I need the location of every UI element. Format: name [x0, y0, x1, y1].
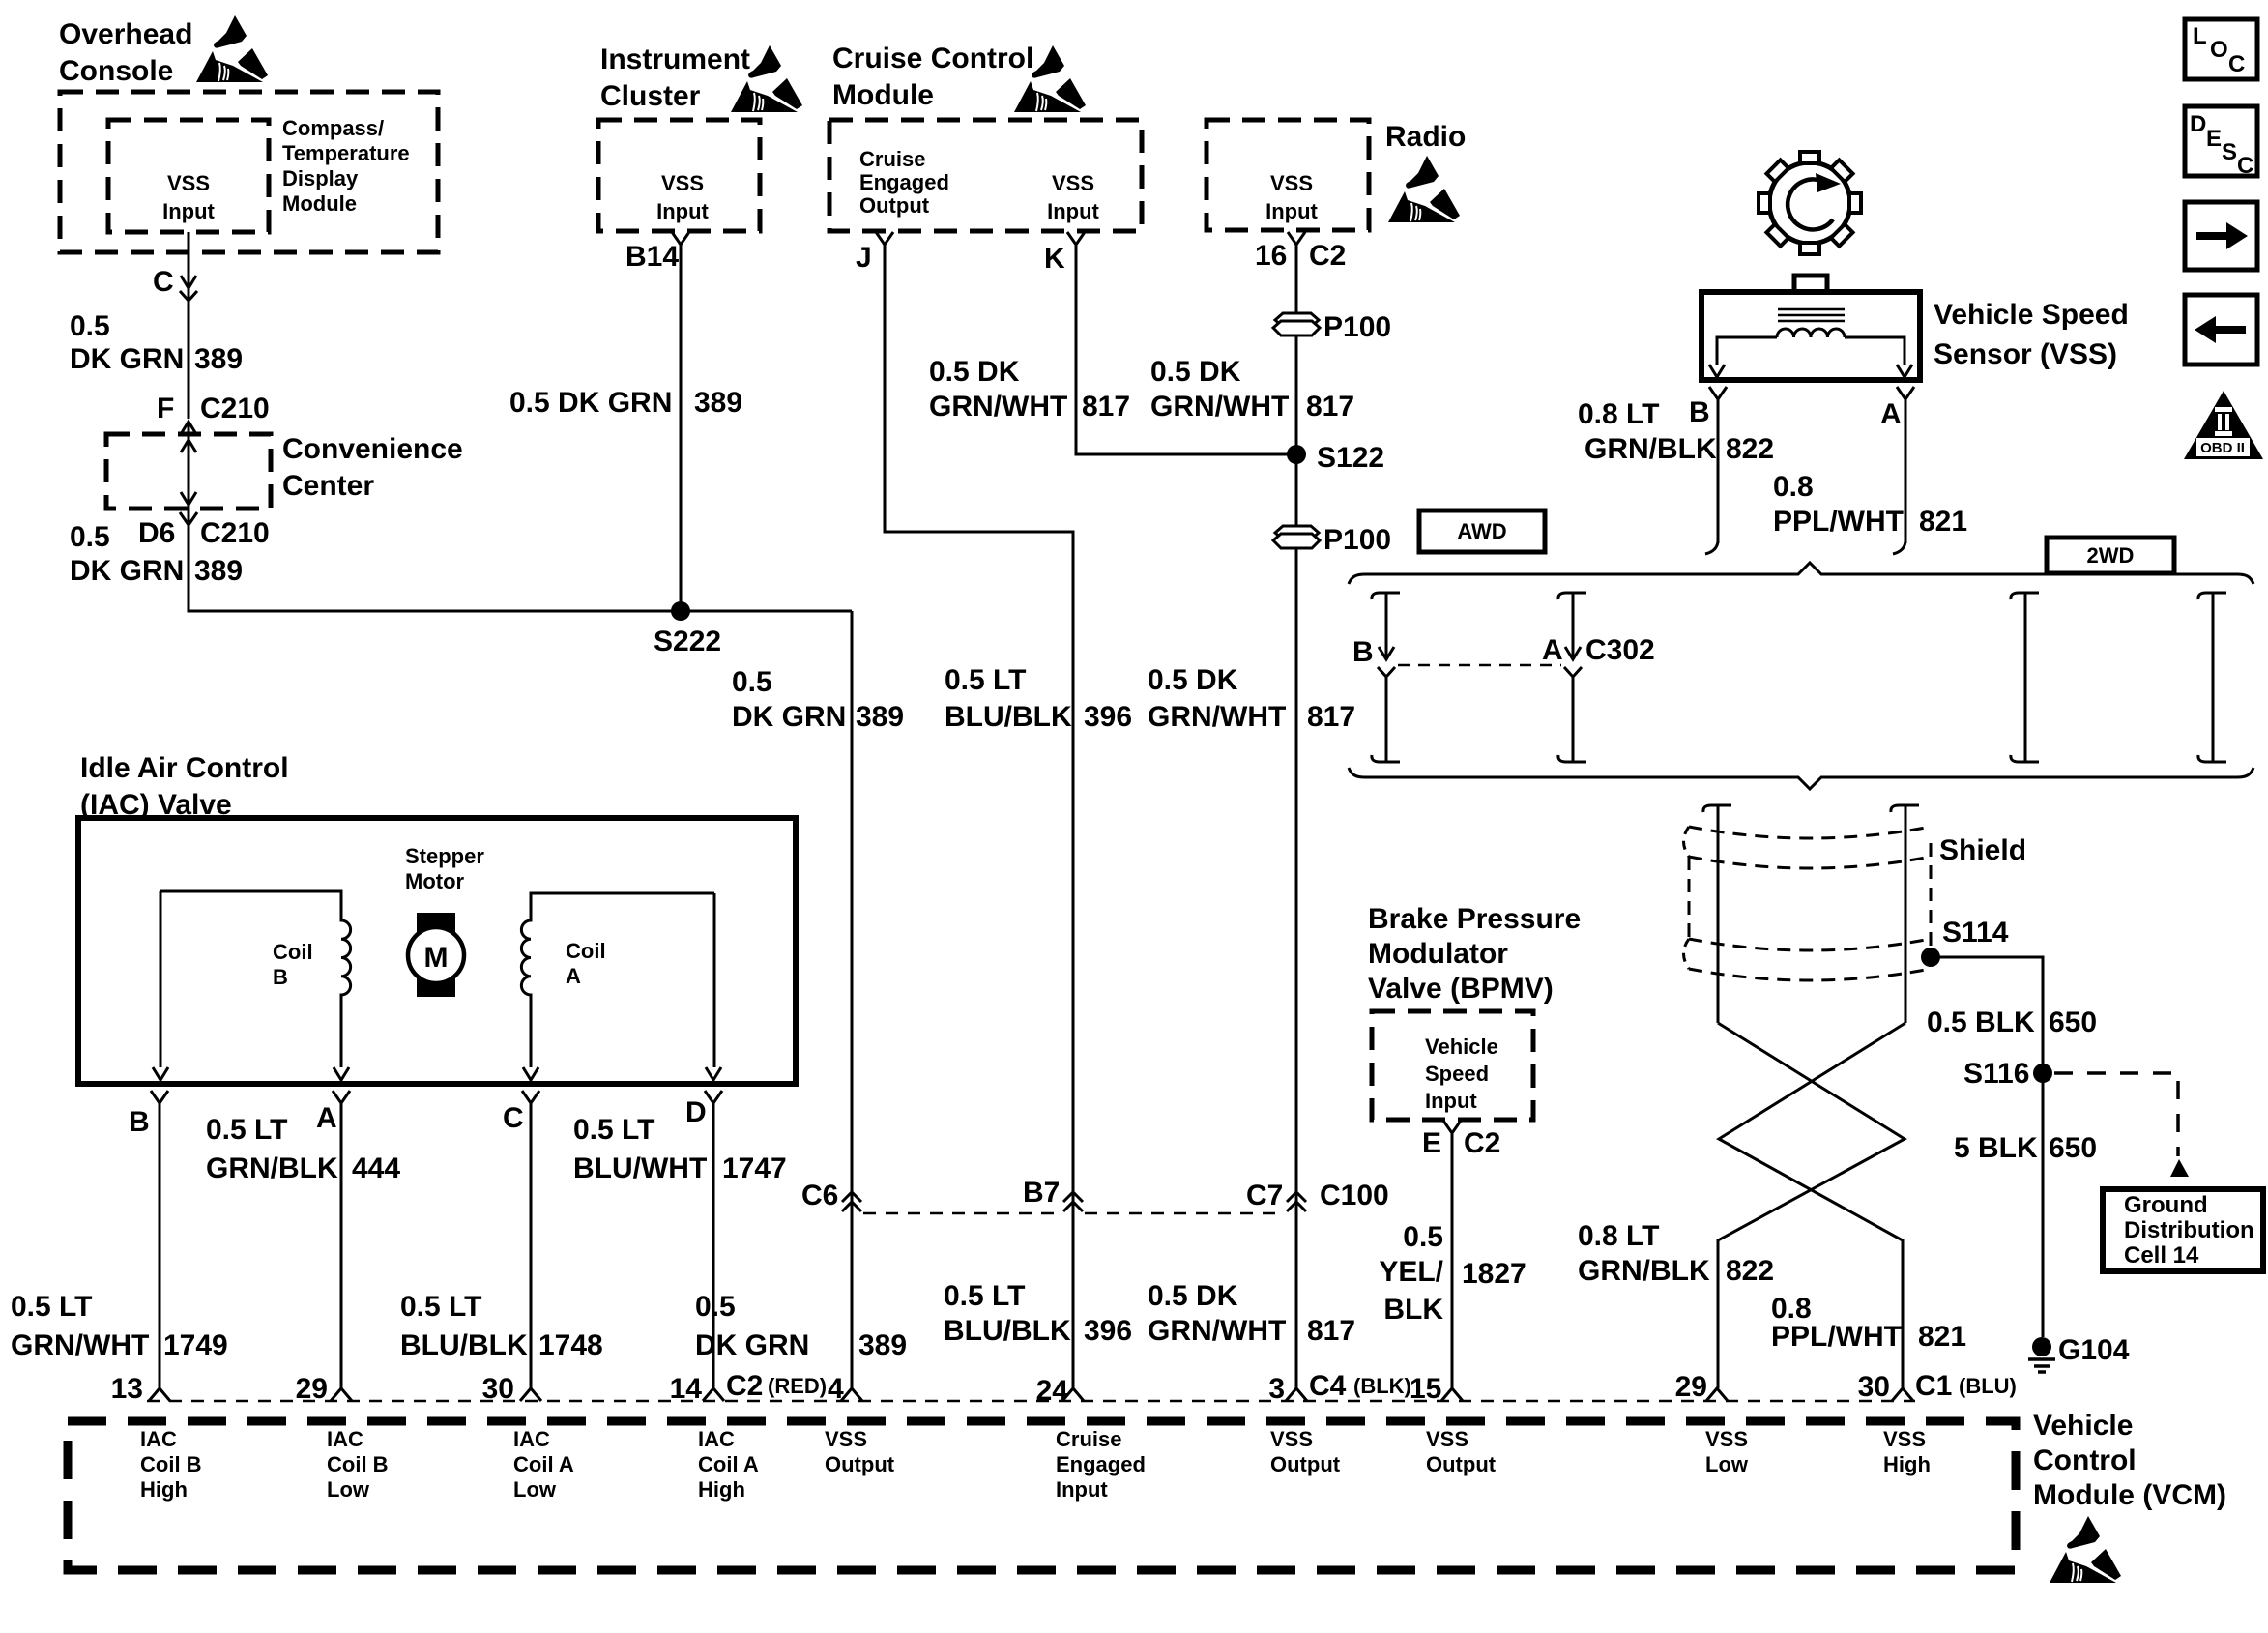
svg-text:0.5: 0.5 [732, 666, 772, 698]
svg-text:Valve (BPMV): Valve (BPMV) [1368, 973, 1554, 1005]
svg-text:B7: B7 [1023, 1177, 1060, 1209]
svg-text:0.5 DK GRN: 0.5 DK GRN [509, 387, 672, 419]
svg-text:0.5 LT: 0.5 LT [206, 1114, 287, 1146]
svg-text:Coil A: Coil A [513, 1452, 574, 1476]
dashed link B-A at C302 [1398, 664, 1561, 667]
svg-text:822: 822 [1726, 433, 1774, 465]
svg-text:0.5: 0.5 [70, 521, 110, 553]
reference box arrow left [2185, 295, 2257, 365]
svg-text:0.8 LT: 0.8 LT [1578, 398, 1659, 430]
module box: Radio VSS Input (dashed) [1207, 120, 1369, 230]
svg-text:High: High [1883, 1452, 1931, 1476]
IAC coil A arrows [523, 1067, 538, 1080]
svg-text:817: 817 [1306, 391, 1354, 423]
svg-text:396: 396 [1084, 1315, 1132, 1347]
svg-text:C4: C4 [1309, 1370, 1347, 1402]
ESD symbol (Instrument Cluster) [731, 45, 802, 112]
svg-text:GRN/WHT: GRN/WHT [1148, 1315, 1286, 1347]
wire through Convenience Center [188, 423, 190, 522]
module box: BPMV Vehicle Speed Input (dashed) [1372, 1011, 1533, 1120]
wire: BPMV E to VCM 15 (YEL/BLK 1827) [1451, 1133, 1454, 1388]
wire: K VSS input to S122 [1076, 245, 1296, 454]
ESD symbol (Overhead Console) [196, 15, 268, 82]
svg-text:Temperature: Temperature [282, 141, 410, 165]
svg-text:1748: 1748 [538, 1329, 603, 1361]
connector fork at VCM pin x=881 [841, 1388, 862, 1401]
option box AWD [1419, 510, 1545, 552]
svg-text:Cell 14: Cell 14 [2124, 1242, 2199, 1268]
svg-text:BLU/BLK: BLU/BLK [944, 1315, 1071, 1347]
wire: VSS high lead (below brace) [1891, 805, 1919, 812]
svg-text:Input: Input [1265, 199, 1318, 223]
svg-text:650: 650 [2049, 1006, 2097, 1038]
svg-text:0.5 DK: 0.5 DK [1148, 1280, 1238, 1312]
wire: 2WD pass-through left [2011, 593, 2039, 599]
wire: VSS B 0.8 LT GRN/BLK 822 [1717, 399, 1720, 543]
wire: 2WD pass-through right [2198, 593, 2226, 599]
svg-text:Output: Output [825, 1452, 895, 1476]
svg-text:Radio: Radio [1385, 121, 1466, 153]
wire: VSS A 0.8 PPL/WHT 821 [1905, 399, 1907, 543]
reference box: Ground Distribution Cell 14 [2103, 1189, 2263, 1271]
svg-text:Compass/: Compass/ [282, 116, 384, 140]
connector fork at VCM pin x=1341 [1286, 1388, 1307, 1401]
svg-text:VSS: VSS [1705, 1427, 1748, 1451]
connector fork at VCM pin x=1968 [1892, 1388, 1913, 1401]
connector fork at VCM pin x=1110 [1062, 1388, 1084, 1401]
svg-text:15: 15 [1410, 1373, 1441, 1405]
reference arrow into Ground Distribution [2170, 1159, 2189, 1177]
svg-text:4: 4 [828, 1373, 844, 1405]
svg-text:0.5 LT: 0.5 LT [11, 1291, 92, 1323]
svg-text:PPL/WHT: PPL/WHT [1773, 506, 1904, 538]
brace (bottom) of drivetrain options [1349, 768, 2253, 789]
svg-text:0.5: 0.5 [1403, 1221, 1443, 1253]
connector fork at J [876, 232, 893, 245]
svg-text:Input: Input [1056, 1477, 1108, 1502]
svg-text:Modulator: Modulator [1368, 938, 1508, 970]
svg-text:Input: Input [656, 199, 709, 223]
svg-text:VSS: VSS [1426, 1427, 1468, 1451]
svg-text:1749: 1749 [163, 1329, 228, 1361]
svg-text:E: E [2206, 126, 2222, 152]
wire: IAC A to VCM 29 [340, 1103, 343, 1388]
svg-text:Instrument: Instrument [600, 44, 750, 75]
wire: IAC D to VCM 14 [712, 1103, 715, 1388]
svg-text:Low: Low [327, 1477, 370, 1502]
svg-text:GRN/WHT: GRN/WHT [1150, 391, 1289, 423]
svg-text:C6: C6 [801, 1180, 838, 1211]
svg-text:0.5 DK: 0.5 DK [929, 356, 1020, 388]
wire: IAC B to VCM 13 [159, 1103, 161, 1388]
svg-text:D: D [2190, 111, 2206, 137]
svg-text:Console: Console [59, 55, 173, 87]
svg-text:Output: Output [1426, 1452, 1497, 1476]
svg-text:C1: C1 [1915, 1370, 1952, 1402]
svg-text:VSS: VSS [1270, 1427, 1313, 1451]
svg-text:389: 389 [858, 1329, 907, 1361]
dashed connector line at VCM [147, 1400, 1915, 1403]
module box: Cruise Control Module (dashed) [829, 120, 1142, 231]
svg-text:C302: C302 [1585, 634, 1655, 666]
svg-text:(BLK): (BLK) [1353, 1374, 1411, 1398]
svg-text:Coil: Coil [566, 939, 606, 963]
svg-text:BLU/WHT: BLU/WHT [573, 1152, 707, 1184]
svg-text:13: 13 [111, 1373, 143, 1405]
ESD symbol (Radio) [1388, 156, 1460, 222]
svg-text:Low: Low [1705, 1452, 1749, 1476]
svg-text:B14: B14 [625, 241, 679, 273]
connector fork at BPMV E [1443, 1121, 1461, 1133]
svg-text:C2: C2 [1464, 1127, 1500, 1159]
svg-text:821: 821 [1918, 1321, 1966, 1353]
svg-text:VSS: VSS [167, 171, 210, 195]
svg-text:J: J [856, 242, 872, 274]
svg-text:Output: Output [1270, 1452, 1341, 1476]
svg-text:GRN/BLK: GRN/BLK [1578, 1255, 1710, 1287]
wire: AWD option A (to C302) [1558, 593, 1586, 599]
svg-text:S222: S222 [654, 626, 721, 657]
svg-text:Coil: Coil [273, 940, 313, 964]
svg-text:C100: C100 [1320, 1180, 1389, 1211]
connector chevrons C6 [842, 1192, 861, 1211]
svg-text:E: E [1422, 1127, 1441, 1159]
connector fork at VCM pin x=353 [331, 1388, 352, 1401]
svg-text:0.8: 0.8 [1773, 471, 1814, 503]
svg-text:Shield: Shield [1939, 834, 2026, 866]
svg-text:BLK: BLK [1383, 1294, 1443, 1326]
svg-text:Center: Center [282, 470, 374, 502]
svg-text:817: 817 [1082, 391, 1130, 423]
svg-text:1827: 1827 [1462, 1258, 1527, 1290]
inline connector P100 (upper) [1275, 313, 1319, 327]
svg-text:Cluster: Cluster [600, 80, 701, 112]
component box: Vehicle Speed Sensor [1794, 276, 1827, 292]
svg-text:817: 817 [1307, 1315, 1355, 1347]
svg-text:B: B [1352, 636, 1374, 668]
IAC coil B arrows [153, 1067, 168, 1080]
svg-text:Motor: Motor [405, 869, 465, 893]
svg-text:High: High [140, 1477, 188, 1502]
svg-text:389: 389 [856, 701, 904, 733]
reluctor gear of VSS [1759, 152, 1861, 254]
IAC coil B winding [160, 891, 351, 1067]
svg-text:Module: Module [832, 79, 934, 111]
svg-text:YEL/: YEL/ [1379, 1256, 1443, 1288]
svg-text:0.5 LT: 0.5 LT [400, 1291, 481, 1323]
svg-text:822: 822 [1726, 1255, 1774, 1287]
svg-text:GRN/BLK: GRN/BLK [206, 1152, 338, 1184]
svg-text:AWD: AWD [1457, 519, 1506, 543]
svg-text:30: 30 [482, 1373, 514, 1405]
svg-text:Vehicle: Vehicle [1425, 1035, 1498, 1059]
svg-text:Overhead: Overhead [59, 18, 192, 50]
svg-text:650: 650 [2049, 1132, 2097, 1164]
svg-text:A: A [1542, 634, 1563, 666]
svg-text:3: 3 [1268, 1373, 1285, 1405]
svg-text:B: B [273, 965, 288, 989]
svg-text:Module (VCM): Module (VCM) [2033, 1479, 2226, 1511]
option box 2WD [2047, 538, 2174, 573]
ESD symbol (Cruise Control Module) [1014, 45, 1086, 112]
svg-text:Cruise Control: Cruise Control [832, 43, 1033, 74]
svg-text:A: A [566, 964, 581, 988]
dashed connector line C100 [863, 1212, 1285, 1215]
svg-text:IAC: IAC [327, 1427, 363, 1451]
svg-text:Vehicle Speed: Vehicle Speed [1934, 299, 2129, 331]
svg-text:C2: C2 [726, 1370, 763, 1402]
svg-text:Coil A: Coil A [698, 1452, 759, 1476]
svg-text:Module: Module [282, 191, 357, 216]
svg-text:Convenience: Convenience [282, 433, 463, 465]
svg-text:S122: S122 [1317, 442, 1384, 474]
svg-text:GRN/WHT: GRN/WHT [11, 1329, 149, 1361]
connector fork at VCM pin x=738 [703, 1388, 724, 1401]
svg-text:Coil B: Coil B [327, 1452, 389, 1476]
svg-text:389: 389 [194, 555, 243, 587]
svg-text:DK GRN: DK GRN [732, 701, 846, 733]
svg-text:C210: C210 [200, 393, 270, 424]
svg-text:C: C [153, 266, 174, 298]
svg-text:A: A [316, 1102, 337, 1134]
svg-text:(BLU): (BLU) [1959, 1374, 2017, 1398]
svg-text:VSS: VSS [1270, 171, 1313, 195]
svg-text:5 BLK: 5 BLK [1954, 1132, 2038, 1164]
svg-text:Sensor (VSS): Sensor (VSS) [1934, 338, 2117, 370]
svg-text:Engaged: Engaged [1056, 1452, 1146, 1476]
connector fork at D6 [180, 512, 197, 525]
svg-text:Stepper: Stepper [405, 844, 484, 868]
sensor pickup coil L1 [1777, 329, 1845, 337]
wire: S222 to C6 to VCM 4 [851, 611, 854, 1388]
wire: IAC C to VCM 30 [530, 1103, 533, 1388]
svg-text:0.8 LT: 0.8 LT [1578, 1220, 1659, 1252]
wire: VSS low lead (below brace) [1703, 805, 1731, 812]
svg-text:IAC: IAC [698, 1427, 735, 1451]
component box: IAC Valve [78, 818, 796, 1084]
svg-text:444: 444 [352, 1152, 400, 1184]
svg-text:GRN/BLK: GRN/BLK [1585, 433, 1717, 465]
connector chevrons B7 [1063, 1192, 1083, 1211]
svg-text:0.5 DK: 0.5 DK [1148, 664, 1238, 696]
ESD symbol (VCM) [2050, 1516, 2121, 1583]
component box: Convenience Center (dashed) [106, 434, 271, 509]
shield (dashed cylinder) [1689, 827, 1931, 838]
connector fork at VSS B [1709, 387, 1727, 399]
svg-text:Input: Input [162, 199, 215, 223]
svg-text:Vehicle: Vehicle [2033, 1410, 2133, 1442]
svg-text:Cruise: Cruise [859, 147, 925, 171]
reference symbol OBD II triangle [2184, 391, 2263, 459]
svg-text:IAC: IAC [513, 1427, 550, 1451]
inline connector P100 (lower) [1275, 526, 1319, 539]
connector arrows at C302 A [1565, 647, 1581, 659]
svg-text:Engaged: Engaged [859, 170, 949, 194]
twisted pair crossover [1718, 1023, 1905, 1388]
svg-text:BLU/BLK: BLU/BLK [945, 701, 1072, 733]
svg-text:VSS: VSS [661, 171, 704, 195]
svg-text:C: C [503, 1102, 524, 1134]
svg-text:Brake Pressure: Brake Pressure [1368, 903, 1581, 935]
svg-text:VSS: VSS [1883, 1427, 1926, 1451]
connector fork at VCM pin x=1502 [1441, 1388, 1463, 1401]
svg-text:S: S [2222, 139, 2237, 165]
svg-text:M: M [424, 942, 449, 974]
svg-text:C210: C210 [200, 517, 270, 549]
wire: Instrument Cluster B14 to S222 [680, 245, 683, 611]
wire: Radio 16 down to VCM pin 3 [1295, 245, 1298, 1388]
svg-text:DK GRN: DK GRN [70, 343, 184, 375]
svg-text:Input: Input [1047, 199, 1099, 223]
svg-text:Input: Input [1425, 1089, 1477, 1113]
module box: Instrument Cluster VSS Input (dashed) [598, 120, 760, 231]
svg-text:B: B [1689, 396, 1710, 428]
svg-text:0.5: 0.5 [70, 310, 110, 342]
arrow up inside Convenience Center [181, 440, 196, 452]
connector fork at VCM pin x=1776 [1706, 1388, 1728, 1401]
reference box DESC [2185, 106, 2257, 176]
svg-text:Control: Control [2033, 1444, 2137, 1476]
svg-text:0.5 BLK: 0.5 BLK [1927, 1006, 2035, 1038]
svg-text:Low: Low [513, 1477, 557, 1502]
svg-text:F: F [157, 393, 174, 424]
connector fork at VSS A [1897, 387, 1914, 399]
connector forks at IAC pins [151, 1091, 168, 1103]
brace (top) of drivetrain options [1349, 563, 2253, 584]
svg-text:A: A [1880, 398, 1902, 430]
svg-text:Speed: Speed [1425, 1062, 1489, 1086]
module box: Vehicle Control Module (thick dashed) [68, 1421, 2016, 1570]
svg-text:0.5: 0.5 [695, 1291, 736, 1323]
sensor internal wires [1717, 337, 1905, 365]
svg-text:O: O [2210, 37, 2228, 63]
svg-text:0.5 LT: 0.5 LT [944, 1280, 1025, 1312]
wire: shield drain S114 to S116 to G104 (BLK 650) [1931, 957, 2043, 1337]
svg-text:Cruise: Cruise [1056, 1427, 1121, 1451]
svg-text:0.5 LT: 0.5 LT [945, 664, 1026, 696]
IAC stepper motor M [417, 913, 455, 997]
svg-text:P100: P100 [1323, 311, 1391, 343]
svg-text:S116: S116 [1963, 1058, 2029, 1090]
svg-text:389: 389 [694, 387, 742, 419]
svg-text:2WD: 2WD [2087, 543, 2135, 568]
reference box LOC [2185, 19, 2257, 79]
svg-text:GRN/WHT: GRN/WHT [1148, 701, 1286, 733]
junction S114 (shield drain) [1921, 948, 1940, 967]
svg-text:P100: P100 [1323, 524, 1391, 556]
svg-text:OBD II: OBD II [2200, 440, 2245, 456]
svg-text:VSS: VSS [1052, 171, 1094, 195]
reference box arrow right [2185, 202, 2257, 270]
svg-text:0.5 LT: 0.5 LT [573, 1114, 654, 1146]
svg-text:Distribution: Distribution [2124, 1217, 2254, 1243]
svg-text:D6: D6 [138, 517, 175, 549]
svg-text:K: K [1044, 243, 1065, 275]
svg-text:C7: C7 [1246, 1180, 1283, 1211]
svg-text:(RED): (RED) [768, 1374, 827, 1398]
svg-text:29: 29 [1675, 1371, 1707, 1403]
svg-text:VSS: VSS [825, 1427, 867, 1451]
svg-text:L: L [2193, 23, 2207, 49]
svg-text:DK GRN: DK GRN [70, 555, 184, 587]
svg-text:GRN/WHT: GRN/WHT [929, 391, 1067, 423]
sensor core lines [1778, 309, 1845, 321]
connector fork at VCM pin x=549 [520, 1388, 541, 1401]
svg-text:821: 821 [1919, 506, 1967, 538]
connector fork at B14 [672, 232, 689, 245]
connector chevron at C210 F [181, 422, 196, 434]
junction S116 [2033, 1064, 2052, 1083]
svg-text:24: 24 [1036, 1375, 1069, 1407]
svg-text:817: 817 [1307, 701, 1355, 733]
svg-text:B: B [129, 1106, 150, 1138]
dashed wire: S116 to Ground Distribution [2054, 1073, 2178, 1156]
ground G104 [2032, 1337, 2051, 1356]
svg-text:D: D [685, 1096, 707, 1128]
svg-text:IAC: IAC [140, 1427, 177, 1451]
junction S122 [1287, 445, 1306, 464]
svg-text:16: 16 [1255, 240, 1287, 272]
junction S222 [671, 601, 690, 621]
svg-text:396: 396 [1084, 701, 1132, 733]
svg-text:0.5 DK: 0.5 DK [1150, 356, 1241, 388]
svg-text:DK GRN: DK GRN [695, 1329, 809, 1361]
svg-text:Display: Display [282, 166, 359, 190]
svg-text:389: 389 [194, 343, 243, 375]
connector fork at VCM pin x=165 [149, 1388, 170, 1401]
connector fork at radio 16 [1288, 232, 1305, 245]
sub-box: VSS Input (Overhead Console) [108, 120, 269, 232]
svg-text:PPL/WHT: PPL/WHT [1771, 1321, 1902, 1353]
svg-text:Ground: Ground [2124, 1192, 2208, 1218]
svg-text:Idle Air Control: Idle Air Control [80, 752, 289, 784]
svg-text:High: High [698, 1477, 745, 1502]
svg-text:30: 30 [1858, 1371, 1890, 1403]
svg-text:C: C [2228, 51, 2245, 77]
module box: Overhead Console (dashed) [60, 92, 438, 252]
svg-text:1747: 1747 [722, 1152, 787, 1184]
svg-text:14: 14 [670, 1373, 703, 1405]
svg-text:Output: Output [859, 193, 930, 218]
svg-text:C: C [2237, 153, 2253, 179]
wire: AWD option B (to C302) [1372, 593, 1400, 599]
svg-text:S114: S114 [1942, 917, 2009, 948]
wire: VSS Input to C210 (DK GRN 389) [188, 232, 190, 419]
connector arrows at C302 B [1379, 647, 1394, 659]
svg-text:C2: C2 [1309, 240, 1346, 272]
sensor internal arrows [1709, 365, 1725, 377]
wire: D6 down to junction S222 run [189, 525, 852, 611]
IAC coil A winding [521, 893, 714, 1067]
connector arrows at pin C [181, 276, 196, 288]
arrow down inside Convenience Center [181, 492, 196, 505]
svg-text:Coil B: Coil B [140, 1452, 202, 1476]
connector fork at K [1067, 232, 1085, 245]
svg-text:29: 29 [296, 1373, 328, 1405]
connector chevrons C7 [1287, 1192, 1306, 1211]
wire: J cruise engaged output down-right-down [885, 245, 1073, 1388]
svg-text:BLU/BLK: BLU/BLK [400, 1329, 528, 1361]
svg-text:G104: G104 [2058, 1334, 2130, 1366]
